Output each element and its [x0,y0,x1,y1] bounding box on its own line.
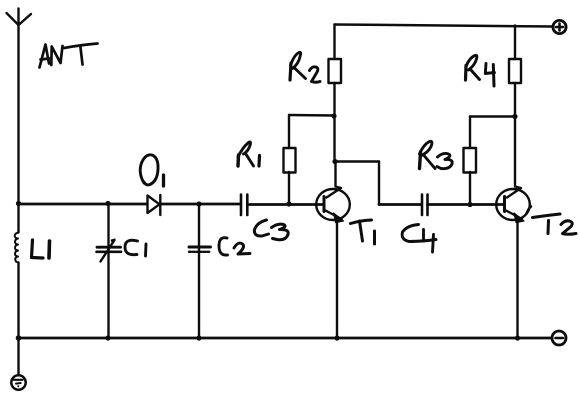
node R3 base junction [467,202,472,207]
node bottom rail junctions [16,335,520,341]
node T1 collector junction [332,159,337,164]
node antenna/mid junction [16,201,21,206]
wire mid rail C3-to-T1-base [247,203,324,206]
L1 value label [32,240,50,258]
resistor R4 [509,26,521,117]
node C1 top junction [105,201,110,206]
C4 value label [402,225,436,253]
resistor R2 [329,25,342,162]
D1 value label [140,155,163,186]
diode D1 [148,195,161,215]
capacitor C3 [241,195,247,216]
R4 value label [466,55,495,86]
node R2/R1 junction [331,113,336,118]
wire mid rail D1-to-C3 [160,203,240,206]
inductor L1 [15,204,19,338]
resistor R3 [464,117,477,205]
capacitor C2 [189,204,211,338]
wire C4 to T2 base [428,203,505,206]
node R4/R3 junction [512,114,517,119]
wire collector T1 to C4 [335,162,422,205]
C2 value label [219,238,250,255]
ANT label [40,44,98,68]
T1 label [351,220,375,244]
wire mid rail left [19,203,148,206]
node C2 top junction [196,201,201,206]
R1 value label [238,142,260,166]
transistor T1 [316,162,350,339]
node R1 base junction [286,201,291,206]
capacitor C4 [422,195,428,216]
R2 value label [290,52,320,82]
power terminal - [552,331,566,345]
C3 value label [254,220,288,240]
capacitor C1 (variable) [97,204,122,338]
power terminal + [553,20,566,33]
C1 value label [125,240,146,256]
T2 label [527,207,577,235]
R3 value label [420,141,453,168]
wire R3 top to R4 line [470,115,515,117]
transistor T2 [496,117,530,339]
wire top rail [335,25,553,27]
antenna [7,9,32,205]
wire bottom rail [19,337,553,340]
ground [11,338,25,390]
resistor R1 [284,115,296,204]
wire R1 top to R2 line [289,114,334,117]
